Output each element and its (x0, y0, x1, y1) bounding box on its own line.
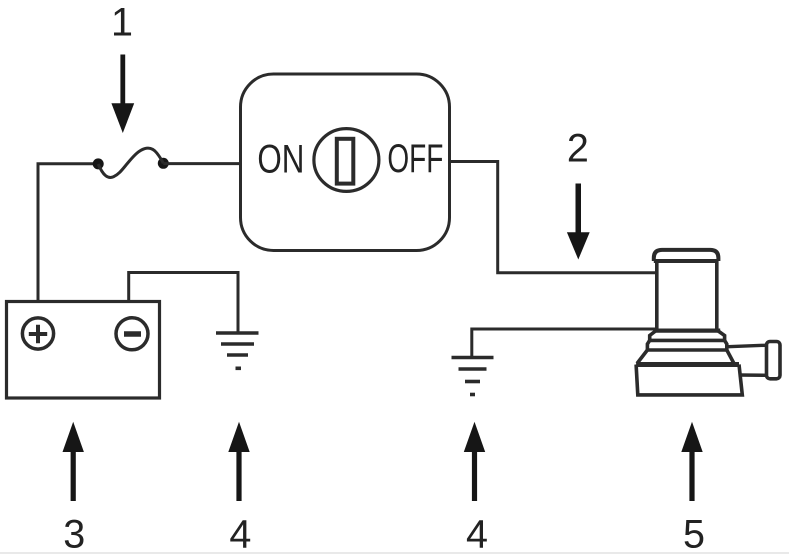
wire battery - to left ground (129, 273, 238, 333)
key switch circle (314, 129, 379, 192)
pump cap (654, 250, 719, 261)
ground symbol right (452, 358, 494, 395)
pump M1 (bilge pump) (636, 250, 780, 395)
svg-text:3: 3 (63, 512, 85, 554)
ground symbol left (216, 333, 259, 368)
pump body (657, 261, 717, 330)
pump flange step 2 (647, 340, 726, 350)
svg-text:2: 2 (567, 127, 589, 171)
wire from battery + up and to fuse (38, 164, 98, 301)
pump skirt (637, 350, 734, 364)
wire switch panel to pump (450, 162, 656, 273)
svg-text:ON: ON (257, 138, 304, 182)
wire fuse to switch panel (163, 162, 240, 165)
svg-text:1: 1 (111, 0, 133, 44)
switch panel S1 (241, 74, 450, 251)
bottom faint divider (0, 552, 789, 554)
svg-text:5: 5 (683, 512, 705, 554)
fuse F1 (93, 148, 169, 177)
pump outlet tube (728, 345, 767, 375)
wire right ground to pump (472, 329, 656, 356)
arrow 4 right (pointer to ground) (464, 422, 485, 501)
arrow 4 left (pointer to ground) (228, 422, 249, 501)
pump base (636, 362, 739, 367)
arrow 2 (pointer to pump wire) (567, 184, 590, 260)
arrow 1 (pointer to fuse) (111, 55, 134, 134)
arrow 3 (pointer to battery) (63, 422, 84, 501)
key slot (337, 139, 354, 184)
arrow 5 (pointer to pump) (681, 422, 702, 501)
pump flange step 1 (655, 329, 720, 333)
svg-text:OFF: OFF (387, 137, 443, 181)
battery + terminal (22, 318, 53, 349)
svg-text:4: 4 (466, 512, 488, 554)
svg-text:4: 4 (229, 512, 251, 554)
pump outlet end cap (767, 342, 781, 379)
battery B1 (7, 302, 160, 399)
battery - terminal (116, 318, 148, 350)
